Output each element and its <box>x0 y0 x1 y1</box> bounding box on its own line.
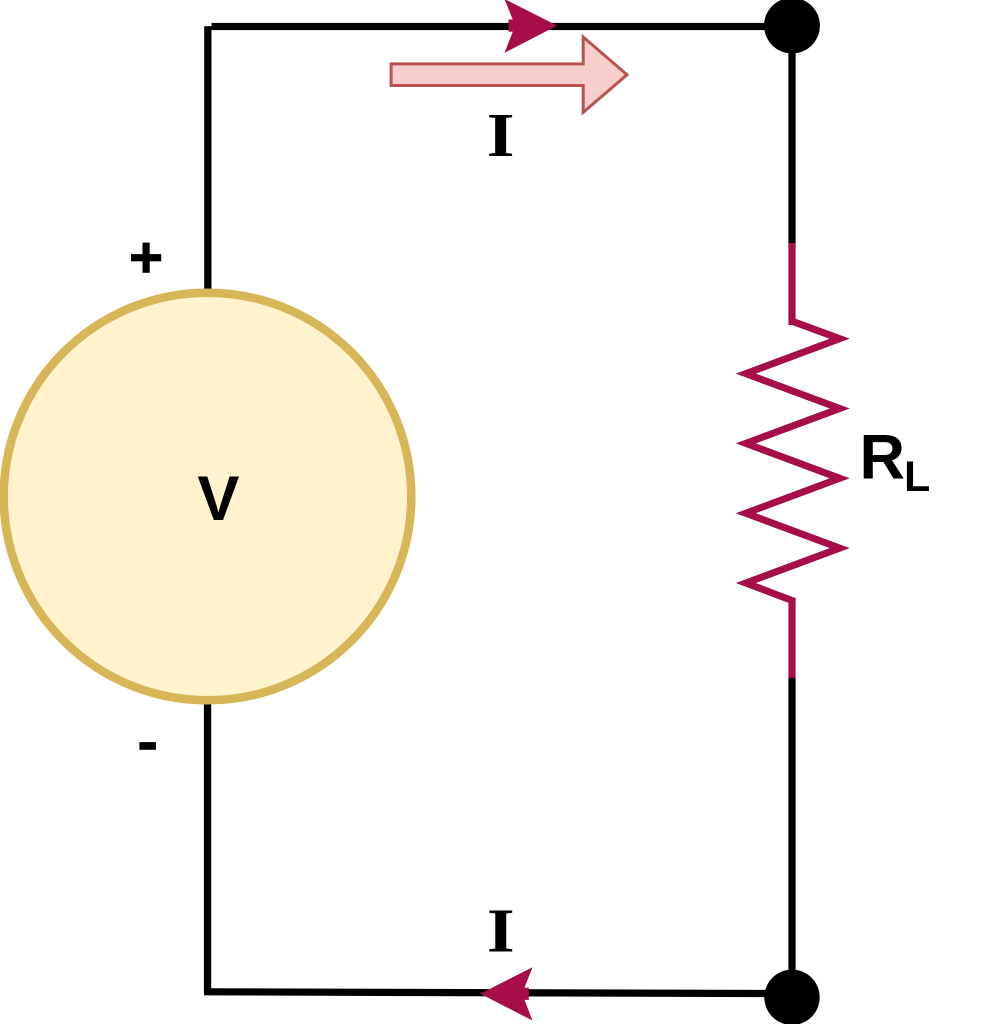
wire left vertical (top) <box>204 26 211 292</box>
svg-text:V: V <box>197 464 239 534</box>
wire right vertical upper (node to resistor) <box>788 26 795 244</box>
current arrowhead on top wire <box>505 0 558 53</box>
current direction block arrow I (top) <box>391 37 627 112</box>
wire bottom horizontal <box>204 988 792 997</box>
wire top horizontal <box>212 23 793 30</box>
wire left vertical (bottom) <box>204 702 211 994</box>
node top-right junction <box>764 0 820 54</box>
voltage source V circle <box>4 293 412 701</box>
resistor RL top lead <box>788 243 795 325</box>
svg-text:R: R <box>860 423 906 493</box>
minus terminal sign <box>139 742 156 750</box>
svg-text:L: L <box>904 453 930 501</box>
svg-text:I: I <box>487 101 515 170</box>
plus terminal sign <box>131 243 161 273</box>
resistor RL bottom lead <box>788 598 795 679</box>
svg-text:I: I <box>487 897 515 966</box>
node bottom-right junction <box>764 970 819 1024</box>
resistor RL zigzag <box>746 321 840 600</box>
return current arrowhead on bottom wire <box>480 967 532 1020</box>
wire right vertical lower (resistor to node) <box>788 678 795 997</box>
